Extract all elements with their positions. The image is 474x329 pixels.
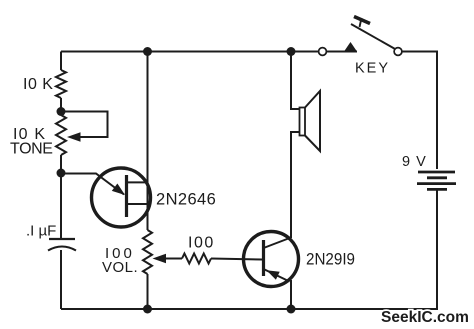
wire right rail lower	[436, 190, 438, 309]
switch S1 left contact circle	[319, 48, 327, 56]
switch S1 knob stem	[360, 18, 362, 27]
wire top rail	[61, 51, 319, 53]
2N2646 base bar	[125, 175, 128, 217]
svg-text:VOL.: VOL.	[102, 259, 138, 276]
transistor Q2 2N2919 circle	[244, 232, 299, 287]
battery B1 plate short	[427, 176, 447, 179]
svg-text:I00: I00	[188, 235, 215, 252]
wire left rail segment 2	[60, 98, 62, 115]
svg-text:I0 K: I0 K	[23, 76, 53, 93]
node junction top speaker column	[287, 47, 296, 56]
switch S1 right contact circle	[394, 48, 402, 56]
capacitor C1 bottom curved plate	[48, 247, 76, 251]
2N2919 collector lead	[264, 238, 292, 249]
tone wiper arrowhead	[67, 132, 81, 142]
2N2646 base-two lead	[127, 181, 148, 183]
wire center column lower	[147, 274, 149, 309]
switch S1 fixed contact triangle	[344, 42, 357, 52]
transistor Q1 2N2646 UJT circle	[92, 168, 151, 227]
wire bottom rail	[61, 308, 438, 310]
vol wiper arrowhead	[153, 254, 167, 264]
node junction at tone pot top	[57, 107, 66, 116]
node junction at emitter tap	[57, 169, 66, 178]
svg-text:KEY: KEY	[355, 61, 390, 77]
svg-text:2N2646: 2N2646	[156, 191, 216, 209]
battery B1 plate short bottom	[427, 188, 447, 191]
speaker LS1 cone	[305, 91, 320, 151]
wire wiper to resistor	[165, 258, 182, 260]
svg-text:2N29I9: 2N29I9	[306, 251, 355, 269]
node junction top center	[143, 47, 152, 56]
wire center column upper	[147, 52, 149, 231]
wire left rail segment 3	[60, 155, 62, 239]
wire left rail segment 4	[60, 250, 62, 309]
svg-text:.I µF: .I µF	[26, 223, 56, 240]
wire resistor to transistor base	[211, 259, 262, 260]
2N2646 base-one lead	[127, 203, 148, 205]
wire speaker column upper	[291, 52, 300, 110]
speaker LS1 frame	[300, 108, 306, 136]
battery B1 plate long lower	[417, 182, 456, 185]
potentiometer R2 10K TONE zigzag	[56, 115, 66, 155]
wire to fixed contact	[327, 51, 358, 53]
node junction bottom center	[143, 305, 152, 314]
svg-text:SeekIC.com: SeekIC.com	[381, 309, 469, 326]
2N2919 emitter arrowhead	[267, 270, 280, 279]
switch S1 knob bar	[354, 17, 370, 24]
resistor R1 10K	[56, 70, 66, 98]
wire speaker column lower	[290, 280, 292, 309]
2N2646 emitter arrowhead	[112, 184, 125, 196]
wire speaker column middle	[291, 132, 300, 238]
capacitor C1 .1uF top plate	[49, 238, 75, 240]
2N2919 base bar	[262, 240, 265, 276]
2N2646 emitter lead wire	[61, 174, 124, 195]
svg-text:9 V: 9 V	[402, 154, 427, 170]
battery B1 plate long top	[418, 171, 455, 174]
switch S1 lever	[351, 24, 396, 50]
wire tone wiper loop	[61, 112, 108, 138]
svg-text:TONE: TONE	[10, 141, 53, 158]
node junction bottom speaker column	[287, 305, 296, 314]
potentiometer R3 100 VOL zigzag	[143, 230, 152, 274]
resistor R4 100	[182, 254, 211, 264]
2N2919 emitter lead	[264, 269, 290, 282]
wire left rail	[60, 52, 62, 71]
wire right rail upper	[402, 52, 437, 170]
